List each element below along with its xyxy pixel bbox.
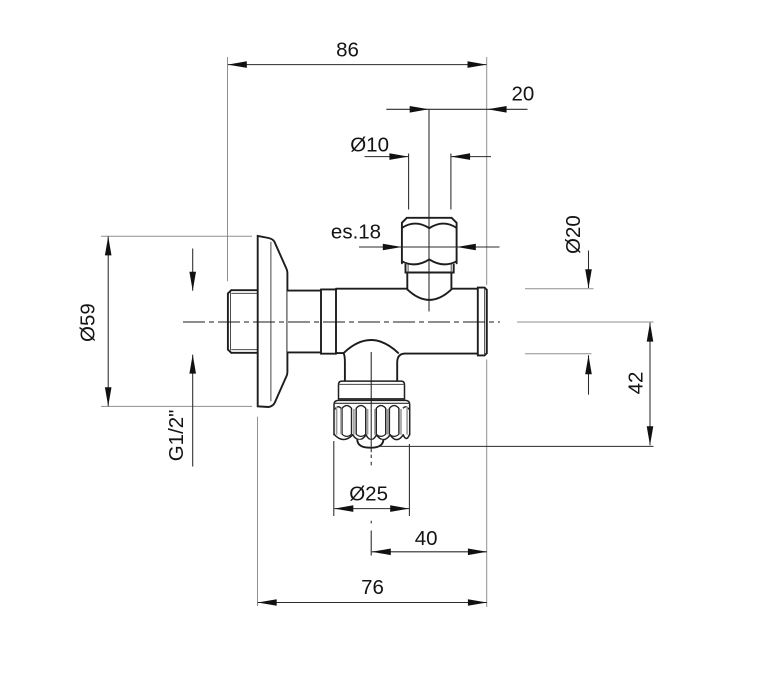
inlet male thread G1/2 bbox=[228, 290, 258, 353]
extension line pipe end bottom (40/76) bbox=[486, 360, 488, 608]
valve centre body and horizontal outlet pipe bbox=[336, 289, 478, 381]
dim 76 bbox=[258, 576, 487, 606]
valve body fill bbox=[336, 289, 478, 381]
dim dia 25 bbox=[334, 483, 409, 512]
svg-text:42: 42 bbox=[624, 372, 647, 395]
extension line flange face (76) bbox=[257, 417, 259, 606]
svg-text:40: 40 bbox=[415, 527, 438, 550]
svg-text:Ø25: Ø25 bbox=[349, 483, 388, 506]
wall flange (rosette) bbox=[258, 236, 288, 407]
svg-text:20: 20 bbox=[511, 83, 534, 106]
knurl flute side lines bbox=[342, 408, 399, 434]
extension line pipe end top (86/20) bbox=[486, 57, 488, 285]
extension lines knurl dia 25 bbox=[334, 441, 410, 516]
knurl flute bottom domes bbox=[342, 434, 399, 436]
hex nut es.18 bbox=[402, 218, 457, 265]
svg-text:Ø59: Ø59 bbox=[76, 303, 99, 342]
dim 20 bbox=[386, 83, 534, 113]
outlet boss dome arc bbox=[344, 340, 398, 353]
svg-text:G1/2": G1/2" bbox=[165, 410, 188, 462]
bonnet neck bbox=[407, 273, 451, 289]
svg-text:76: 76 bbox=[361, 576, 384, 599]
body cylinder between flange and ring bbox=[287, 291, 321, 353]
knurl flute top domes bbox=[335, 406, 410, 410]
knurl shading lines bbox=[337, 407, 408, 435]
knurl bottom scallops bbox=[334, 434, 410, 439]
outlet axis centreline bbox=[370, 352, 372, 556]
dim G1/2 bbox=[165, 249, 196, 467]
pipe axis centreline bbox=[183, 321, 500, 323]
outlet collar above knurl bbox=[339, 381, 405, 399]
svg-text:es.18: es.18 bbox=[331, 221, 381, 244]
dim dia 20 vertical bbox=[562, 215, 592, 394]
knurled compression nut bbox=[334, 400, 410, 439]
svg-text:Ø20: Ø20 bbox=[562, 215, 585, 254]
dim 42 bbox=[624, 323, 653, 446]
bonnet boss intersection arc bbox=[407, 289, 451, 300]
ring band on body bbox=[321, 289, 336, 353]
extension line valve bottom to 42 bbox=[380, 445, 654, 447]
extension lines flange dia 59 bbox=[101, 236, 252, 406]
extension line flange rear (86) bbox=[227, 57, 229, 281]
dim es.18 bbox=[331, 221, 500, 251]
extension lines stem dia 10 bbox=[409, 154, 451, 210]
stem axis centreline bbox=[428, 109, 430, 311]
dim dia 59 bbox=[76, 236, 111, 406]
dim dia 10 bbox=[350, 134, 491, 160]
dim 86 bbox=[228, 39, 487, 68]
svg-text:86: 86 bbox=[336, 39, 359, 62]
extension lines pipe dia 20 bbox=[525, 289, 594, 354]
dim 40 bbox=[372, 527, 487, 555]
svg-text:Ø10: Ø10 bbox=[350, 134, 389, 157]
washer collar under hex nut bbox=[406, 264, 454, 273]
pipe end bead bbox=[478, 288, 487, 356]
cap dome under knurl bbox=[357, 440, 383, 448]
extension line pipe axis to 42 bbox=[517, 321, 654, 323]
